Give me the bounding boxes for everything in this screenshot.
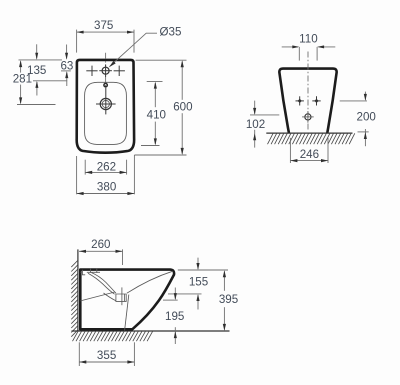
bowl rising curve: [127, 271, 173, 293]
dimension 262: [84, 160, 86, 175]
svg-text:262: 262: [97, 161, 116, 174]
plan view outline: [77, 60, 134, 153]
tap hole left cross: [86, 70, 97, 72]
dimension 102: [250, 114, 279, 116]
extension line drain level: [17, 104, 56, 106]
plan bowl inner outline: [85, 82, 127, 144]
dimension 195: [163, 299, 178, 301]
svg-text:395: 395: [219, 293, 238, 306]
dimension 246: [289, 138, 291, 163]
floor hatch rear: [268, 133, 355, 144]
tap hole center circle O35: [102, 67, 109, 74]
leader line O35: [110, 33, 158, 66]
small overflow hole: [104, 83, 107, 86]
drain hole: [100, 98, 111, 109]
fixing hole right: [316, 96, 318, 105]
dimension 281: [20, 61, 22, 72]
side deck platform and hole marks: [87, 271, 100, 273]
extension line bowl-top level: [33, 80, 67, 82]
dimension 355: [78, 342, 80, 366]
plan centerline: [105, 53, 107, 89]
svg-text:63: 63: [60, 60, 73, 73]
dimension 63: [66, 45, 68, 59]
svg-text:375: 375: [94, 19, 113, 32]
svg-text:380: 380: [97, 181, 116, 194]
svg-text:102: 102: [246, 118, 265, 131]
dimension 135: [36, 44, 38, 58]
extension line tap level: [61, 70, 71, 72]
waste fitting box: [116, 294, 126, 301]
extension for 380 left: [76, 156, 78, 194]
bowl section lower curve: [88, 273, 115, 294]
floor hatch side: [73, 331, 153, 341]
svg-text:200: 200: [357, 111, 376, 124]
svg-text:410: 410: [147, 108, 166, 121]
rear centerline: [307, 52, 309, 131]
dimension 375: [76, 30, 78, 53]
drain drop line: [125, 295, 129, 331]
rear view outline: [279, 69, 336, 133]
svg-text:155: 155: [189, 275, 208, 288]
svg-text:260: 260: [91, 238, 110, 251]
floor line rear: [266, 132, 352, 134]
dimension 380: [77, 193, 135, 195]
wall line: [77, 249, 79, 331]
extension for 380 right: [133, 155, 135, 194]
waste fitting centerlines: [121, 287, 123, 305]
hidden back slope line: [80, 292, 114, 301]
extension line top edge (left): [19, 59, 63, 61]
side deck step: [80, 270, 85, 275]
side profile outline: [80, 270, 174, 330]
fixing hole left: [299, 96, 301, 105]
svg-text:195: 195: [165, 310, 184, 323]
floor line side: [72, 330, 230, 332]
svg-text:110: 110: [299, 32, 317, 45]
dimension 110: [298, 47, 300, 61]
svg-text:Ø35: Ø35: [160, 26, 182, 39]
dimension 410: [147, 81, 163, 83]
tap hole right cross: [114, 70, 125, 72]
dimension 395: [223, 271, 225, 291]
svg-text:246: 246: [300, 148, 319, 161]
dimension 155: [178, 269, 228, 271]
wall hatch: [71, 261, 77, 337]
dimension 200: [340, 100, 367, 102]
svg-text:281: 281: [13, 72, 32, 85]
dimension 260: [122, 249, 124, 265]
dimension 600: [136, 59, 187, 61]
svg-text:355: 355: [97, 349, 116, 362]
bowl section upper curve: [92, 273, 116, 294]
water inlet: [305, 114, 311, 120]
svg-text:600: 600: [173, 100, 192, 113]
